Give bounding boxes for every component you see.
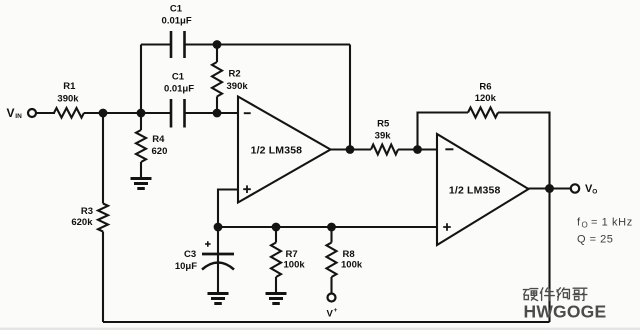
svg-text:R7: R7 [286,249,298,260]
wire bottom rail [103,321,550,323]
terminal Vo [571,184,579,192]
node F junction [214,223,223,232]
node J junction [545,184,554,193]
svg-text:1/2 LM358: 1/2 LM358 [251,145,303,157]
svg-text:IN: IN [15,113,22,120]
wire R1 to opamp1 inverting input [84,112,170,114]
node A junction [99,109,108,118]
node G junction [272,223,281,232]
svg-text:R8: R8 [343,249,355,260]
svg-text:C1: C1 [172,71,185,82]
op-amp U1 [238,97,331,203]
bottom scan edge [0,328,640,330]
watermark chinese 硬件狗哥 drawn as strokes [523,288,587,301]
svg-text:10μF: 10μF [175,261,197,272]
svg-text:R6: R6 [479,81,491,92]
wire bias rail [218,226,437,228]
svg-text:O: O [582,221,588,230]
wire opamp1 output [331,148,372,150]
svg-text:HWGOGE: HWGOGE [524,302,607,322]
wire top feedback down to opamp1 output [349,45,351,150]
resistor R2 [216,45,218,63]
svg-text:R2: R2 [229,68,241,79]
wire top feedback right [185,43,351,45]
wire output down [548,189,550,323]
capacitor C1 (lower) [171,99,185,128]
resistor R7 [275,227,277,243]
svg-text:C3: C3 [184,249,196,260]
capacitor C1 (top) [171,31,185,58]
svg-text:0.01μF: 0.01μF [164,83,194,94]
label fo = 1 kHz [577,217,633,230]
resistor R5 [371,145,398,155]
wire Vin to R1 [36,112,55,114]
node I junction [413,145,422,154]
node B junction [137,109,146,118]
svg-text:39k: 39k [375,130,392,141]
svg-text:100k: 100k [284,260,306,271]
resistor R4 [140,113,142,130]
wire opamp1 noninverting input [218,190,238,228]
node C junction [213,109,222,118]
svg-text:0.01μF: 0.01μF [162,16,192,27]
ground under C3 [208,294,229,304]
ground under R7 [266,294,287,304]
op-amp U2 [437,134,529,245]
resistor R3 [102,113,104,204]
capacitor C3 [202,227,234,292]
node E junction [346,145,355,154]
wire top feedback left [141,43,170,45]
svg-text:R4: R4 [152,134,165,145]
svg-text:Q = 25: Q = 25 [577,234,613,246]
resistor R8 [330,227,332,243]
resistor R1 [54,108,84,118]
wire node B up to top feedback [140,45,142,114]
svg-text:V: V [7,106,15,120]
svg-text:O: O [592,189,597,196]
svg-text:R5: R5 [377,119,390,130]
wire feedback down to output [498,113,550,189]
svg-text:120k: 120k [475,93,497,104]
svg-text:620: 620 [152,146,168,157]
terminal Vin [28,109,36,117]
svg-text:V: V [327,309,334,320]
svg-text:390k: 390k [57,93,79,104]
svg-text:R3: R3 [81,206,93,217]
svg-text:620k: 620k [71,217,93,228]
wire feedback up [418,113,469,150]
svg-text:= 1 kHz: = 1 kHz [591,217,633,229]
node D junction [213,40,222,49]
terminal V+ [328,294,336,302]
svg-text:C1: C1 [170,3,183,14]
ground under R4 [131,179,152,189]
wire R5 to opamp2 inverting input [398,148,437,150]
svg-text:100k: 100k [341,260,363,271]
node Vin label [7,106,23,120]
svg-text:R1: R1 [63,81,76,92]
svg-text:+: + [334,307,338,314]
svg-text:1/2 LM358: 1/2 LM358 [449,184,501,196]
svg-text:390k: 390k [227,81,249,92]
resistor R6 [468,108,498,118]
wire opamp2 output [529,187,572,189]
node H junction [327,223,336,232]
